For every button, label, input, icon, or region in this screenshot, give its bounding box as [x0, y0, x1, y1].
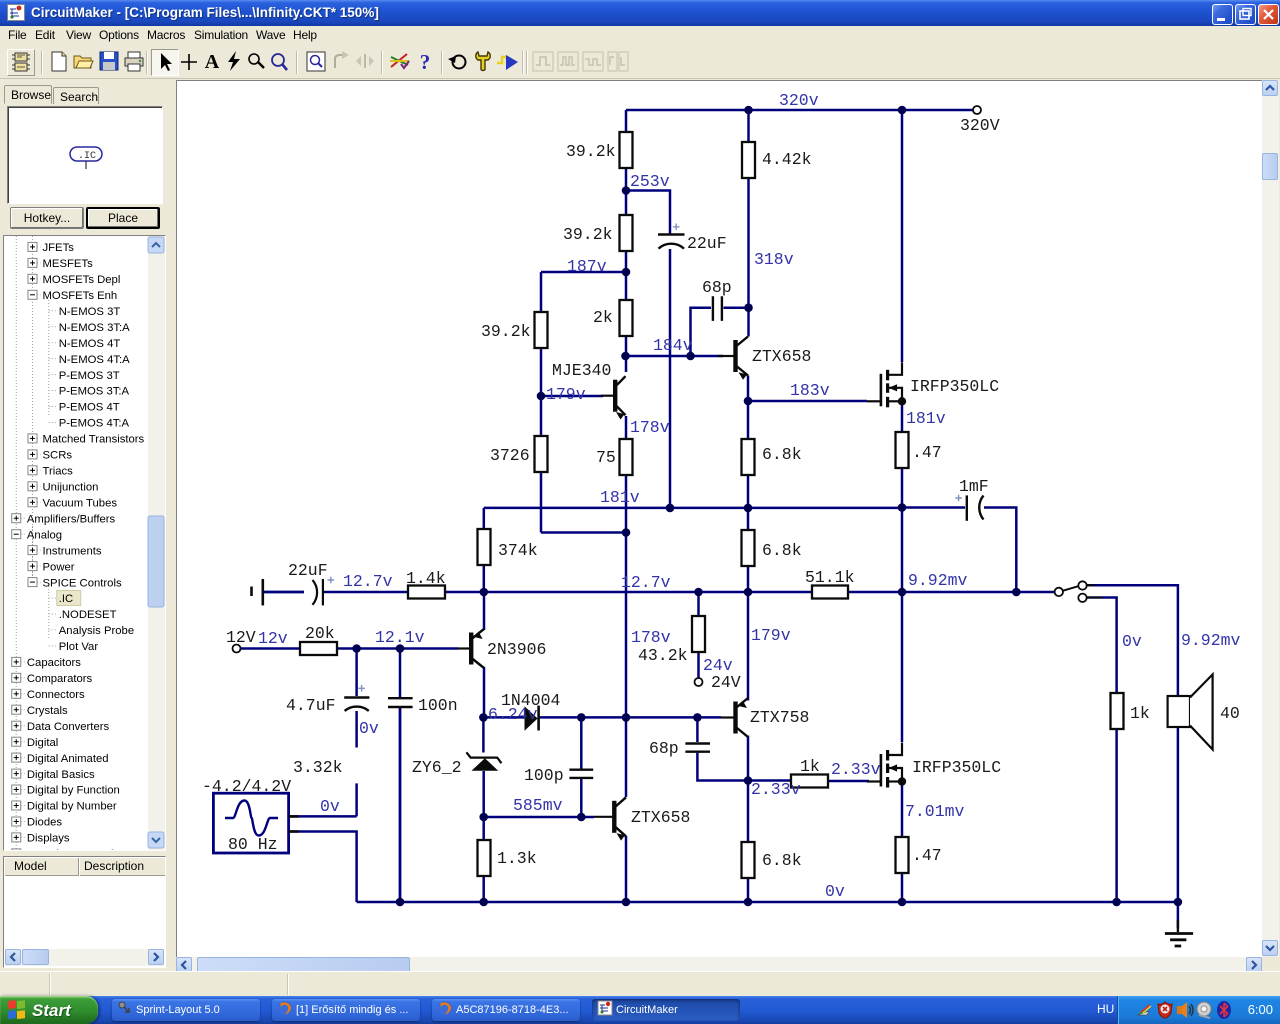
transistor Q5 ZTX758 — [733, 702, 737, 734]
svg-text:Unijunction: Unijunction — [43, 482, 99, 494]
svg-text:Crystals: Crystals — [27, 705, 68, 717]
wire main 12.7v rail — [264, 591, 1054, 594]
svg-text:Comparators: Comparators — [27, 673, 93, 685]
transistor Q2 ZTX658 — [733, 340, 737, 372]
svg-text:184v: 184v — [653, 336, 693, 355]
svg-text:2N3906: 2N3906 — [487, 640, 546, 659]
wire x=748 right chain — [747, 110, 750, 902]
svg-text:2k: 2k — [593, 308, 613, 327]
wire 1k gate2 — [828, 780, 869, 783]
svg-text:ZTX758: ZTX758 — [750, 708, 809, 727]
svg-text:SPICE Controls: SPICE Controls — [43, 577, 122, 589]
resistor R9 20k — [300, 642, 337, 655]
svg-text:9.92mv: 9.92mv — [908, 571, 968, 590]
wire speaker to rail and ground — [1177, 727, 1180, 928]
svg-text:80 Hz: 80 Hz — [228, 835, 278, 854]
svg-text:JFETs: JFETs — [43, 242, 75, 254]
svg-text:179v: 179v — [751, 626, 791, 645]
ground output (right) — [1177, 920, 1179, 932]
svg-text:Vacuum Tubes: Vacuum Tubes — [43, 498, 118, 510]
resistor R14 51.1k — [812, 586, 848, 599]
svg-text:39.2k: 39.2k — [481, 322, 531, 341]
svg-text:N-EMOS 3T:A: N-EMOS 3T:A — [59, 322, 130, 334]
left panel — [0, 79, 176, 971]
svg-text:Plot Var: Plot Var — [59, 641, 99, 653]
resistor R8 1.4k — [408, 586, 445, 599]
capacitor C1 22uF — [658, 233, 685, 235]
capacitor C4 4.7uF — [344, 696, 369, 698]
svg-text:Data Converters: Data Converters — [27, 721, 110, 733]
resistor R7 4.42k — [742, 142, 755, 178]
svg-text:9.92mv: 9.92mv — [1181, 631, 1241, 650]
svg-text:12V: 12V — [226, 628, 256, 647]
wire 12.1v branches — [357, 649, 400, 903]
resistor R16 .47 — [896, 837, 909, 873]
svg-text:Matched Transistors: Matched Transistors — [43, 434, 145, 446]
svg-text:Triacs: Triacs — [43, 466, 74, 478]
wire x=902 drain/source chain — [901, 110, 904, 902]
capacitor C7 68p — [685, 744, 710, 752]
wire 183v gate1 — [748, 400, 867, 403]
svg-text:MOSFETs Enh: MOSFETs Enh — [43, 290, 118, 302]
svg-text:0v: 0v — [825, 882, 845, 901]
terminal 320V — [973, 106, 981, 114]
transistor Q4 ZTX658 — [612, 801, 616, 833]
zener D2 ZY6_2 — [472, 758, 499, 771]
svg-text:320v: 320v — [779, 91, 819, 110]
svg-text:1k: 1k — [800, 757, 820, 776]
svg-text:51.1k: 51.1k — [805, 568, 855, 587]
transistor Q3 2N3906 — [469, 633, 473, 665]
canvas h-scrollbar — [176, 957, 1262, 974]
svg-text:N-EMOS 3T: N-EMOS 3T — [59, 306, 121, 318]
svg-text:.47: .47 — [912, 443, 942, 462]
svg-text:?: ? — [420, 50, 431, 74]
svg-text:320V: 320V — [960, 116, 1000, 135]
switch S1 — [1054, 591, 1055, 593]
taskbar — [0, 996, 1280, 1024]
svg-text:Connectors: Connectors — [27, 689, 85, 701]
wire x=626 main chain — [625, 110, 628, 902]
resistor R3 2k — [620, 300, 633, 336]
svg-text:2.33v: 2.33v — [831, 760, 881, 779]
wire 1.3k branch — [482, 817, 485, 902]
svg-text:SCRs: SCRs — [43, 450, 73, 462]
resistor R10 6.8k — [742, 439, 755, 475]
svg-text:100n: 100n — [418, 696, 458, 715]
terminal 12V input — [233, 645, 241, 653]
canvas v-scrollbar — [1262, 80, 1279, 957]
speaker LS1 — [1168, 696, 1190, 727]
svg-text:179v: 179v — [546, 385, 586, 404]
svg-text:1k: 1k — [1130, 704, 1150, 723]
wire input ground to 22uF — [264, 591, 304, 594]
wire 187v — [541, 271, 626, 274]
canvas — [175, 79, 1280, 975]
title bar — [0, 0, 1280, 26]
svg-text:N-EMOS 4T:A: N-EMOS 4T:A — [59, 354, 130, 366]
svg-text:P-EMOS 4T: P-EMOS 4T — [59, 402, 120, 414]
menu — [0, 26, 1280, 46]
svg-text:.47: .47 — [912, 846, 942, 865]
svg-text:68p: 68p — [649, 739, 679, 758]
wire 585mv — [484, 816, 594, 819]
wire 184v — [626, 355, 724, 358]
svg-text:Digital by Number: Digital by Number — [27, 801, 117, 813]
resistor R12 6.8k — [742, 842, 755, 878]
svg-text:12.7v: 12.7v — [621, 573, 671, 592]
start button — [0, 996, 98, 1024]
svg-text:585mv: 585mv — [513, 796, 563, 815]
svg-text:39.2k: 39.2k — [563, 225, 613, 244]
svg-text:178v: 178v — [631, 628, 671, 647]
resistor R18 1.3k — [478, 840, 491, 876]
svg-text:24V: 24V — [711, 673, 741, 692]
svg-text:MESFETs: MESFETs — [43, 258, 94, 270]
capacitor C6 100p — [569, 770, 593, 778]
svg-text:4.42k: 4.42k — [762, 150, 812, 169]
svg-text:6.8k: 6.8k — [762, 851, 802, 870]
svg-text:Digital: Digital — [27, 737, 58, 749]
source V1 box — [213, 793, 288, 853]
resistor R13 .47 — [896, 432, 909, 468]
terminal 24V — [695, 678, 703, 686]
svg-text:100p: 100p — [524, 766, 564, 785]
toolbar — [0, 46, 1280, 79]
svg-text:1.3k: 1.3k — [497, 849, 537, 868]
svg-text:181v: 181v — [906, 409, 946, 428]
svg-text:318v: 318v — [754, 250, 794, 269]
junction dots — [744, 106, 753, 115]
svg-text:43.2k: 43.2k — [638, 646, 688, 665]
diode D1 1N4004 — [525, 706, 538, 731]
svg-text:A: A — [205, 51, 220, 73]
resistor R15 1k — [791, 775, 828, 788]
svg-text:68p: 68p — [702, 278, 732, 297]
wire input 12V to 20k — [241, 647, 301, 650]
svg-text:12.1v: 12.1v — [375, 628, 425, 647]
svg-text:N-EMOS 4T: N-EMOS 4T — [59, 338, 121, 350]
wire 374k branch 181v — [484, 508, 670, 592]
svg-text:.IC: .IC — [78, 151, 96, 162]
svg-text:24v: 24v — [703, 656, 733, 675]
svg-text:Displays: Displays — [27, 833, 70, 845]
wire 4.7uF/3.32k branch — [355, 711, 358, 816]
svg-text:0v: 0v — [320, 797, 340, 816]
svg-text:Digital Animated: Digital Animated — [27, 753, 109, 765]
wire 6.24v diode row y=717.5 — [483, 716, 721, 719]
svg-text:.NODESET: .NODESET — [59, 609, 117, 621]
capacitor C5 100n — [388, 698, 413, 707]
svg-text:IRFP350LC: IRFP350LC — [912, 758, 1001, 777]
svg-text:183v: 183v — [790, 381, 830, 400]
svg-text:P-EMOS 3T:A: P-EMOS 3T:A — [59, 386, 130, 398]
capacitor C2 68p — [713, 296, 722, 321]
wire 68p2 branch — [697, 717, 791, 780]
svg-text:75: 75 — [596, 448, 616, 467]
svg-text:181v: 181v — [600, 488, 640, 507]
svg-text:253v: 253v — [630, 172, 670, 191]
resistor R5 75 — [620, 439, 633, 475]
wire source box leads — [289, 815, 357, 818]
svg-text:Instruments: Instruments — [43, 545, 102, 557]
status bar — [0, 971, 1280, 996]
wire 22uF bottom to 181v rail — [669, 249, 672, 509]
svg-text:Capacitors: Capacitors — [27, 657, 81, 669]
resistor R19 43.2k — [692, 616, 705, 652]
svg-text:20k: 20k — [305, 624, 335, 643]
svg-text:178v: 178v — [630, 418, 670, 437]
svg-text:Digital Basics: Digital Basics — [27, 769, 95, 781]
wire zener branch — [482, 717, 485, 817]
resistor R4 39.2k — [535, 312, 548, 348]
svg-text:IRFP350LC: IRFP350LC — [910, 377, 999, 396]
svg-text:P-EMOS 3T: P-EMOS 3T — [59, 370, 120, 382]
svg-text:.IC: .IC — [59, 593, 73, 605]
wire 100p branch — [580, 717, 583, 817]
wire 68p branch — [691, 308, 712, 356]
svg-text:MOSFETs Depl: MOSFETs Depl — [43, 274, 121, 286]
transistor Q1 MJE340 — [613, 380, 617, 412]
svg-text:374k: 374k — [498, 541, 538, 560]
svg-text:22uF: 22uF — [288, 561, 328, 580]
resistor R2 39.2k — [620, 215, 633, 251]
svg-text:2.33v: 2.33v — [751, 780, 801, 799]
wire bottom 0v rail — [357, 901, 1178, 904]
svg-text:Start: Start — [32, 1001, 72, 1020]
wire 100n bottom — [399, 708, 402, 902]
ground input (left) — [261, 579, 264, 605]
svg-text:4.7uF: 4.7uF — [286, 696, 336, 715]
svg-text:40: 40 — [1220, 704, 1240, 723]
svg-text:0v: 0v — [359, 719, 379, 738]
svg-text:6.8k: 6.8k — [762, 445, 802, 464]
svg-text:7.01mv: 7.01mv — [905, 802, 965, 821]
wire 253v to 22uF — [626, 191, 670, 235]
resistor R17 374k — [478, 529, 491, 565]
svg-text:-4.2/4.2V: -4.2/4.2V — [202, 777, 291, 796]
svg-text:Analysis Probe: Analysis Probe — [59, 625, 134, 637]
capacitor 22uF input — [313, 580, 318, 605]
svg-text:3726: 3726 — [490, 446, 530, 465]
wire 43.2k branch 24V — [697, 592, 700, 678]
svg-text:12.7v: 12.7v — [343, 572, 393, 591]
svg-text:ZTX658: ZTX658 — [752, 347, 811, 366]
svg-text:0v: 0v — [1122, 632, 1142, 651]
resistor R20 1k — [1111, 693, 1124, 729]
mosfet U1 IRFP350LC — [867, 400, 881, 402]
svg-text:Encoders. Decod: Encoders. Decod — [27, 849, 114, 850]
svg-text:187v: 187v — [567, 257, 607, 276]
svg-text:ZTX658: ZTX658 — [631, 808, 690, 827]
svg-text:Analog: Analog — [27, 529, 62, 541]
svg-text:Power: Power — [43, 561, 75, 573]
resistor R11 6.8k — [742, 530, 755, 566]
svg-text:Amplifiers/Buffers: Amplifiers/Buffers — [27, 513, 116, 525]
svg-text:39.2k: 39.2k — [566, 142, 616, 161]
svg-text:1mF: 1mF — [959, 477, 989, 496]
svg-text:Diodes: Diodes — [27, 817, 63, 829]
resistor R1 39.2k — [620, 132, 633, 168]
svg-text:Digital by Function: Digital by Function — [27, 785, 120, 797]
wire 181v rail right part — [670, 507, 902, 510]
svg-text:1.4k: 1.4k — [406, 569, 446, 588]
capacitor C3 1mF — [966, 495, 968, 520]
mosfet U2 IRFP350LC — [867, 780, 881, 782]
svg-text:ZY6_2: ZY6_2 — [412, 758, 462, 777]
svg-text:12v: 12v — [258, 629, 288, 648]
svg-text:P-EMOS 4T:A: P-EMOS 4T:A — [59, 418, 130, 430]
svg-text:6.8k: 6.8k — [762, 541, 802, 560]
wire switch lower to 1k — [1087, 598, 1117, 903]
wire 320v rail — [626, 109, 973, 112]
svg-text:MJE340: MJE340 — [552, 361, 611, 380]
tray — [1097, 1002, 1114, 1016]
wire 1mF branch — [902, 506, 965, 509]
task buttons — [112, 999, 260, 1021]
svg-text:6.24v: 6.24v — [488, 705, 538, 724]
wire switch upper to speaker — [1087, 585, 1178, 696]
wire x=541 branch — [541, 272, 626, 533]
wire MJE340 base 179v — [541, 395, 603, 398]
wire 2N3906 emitter up / collector down — [483, 592, 486, 717]
svg-text:3.32k: 3.32k — [293, 758, 343, 777]
svg-text:22uF: 22uF — [687, 234, 727, 253]
resistor R6 3726 — [535, 436, 548, 472]
